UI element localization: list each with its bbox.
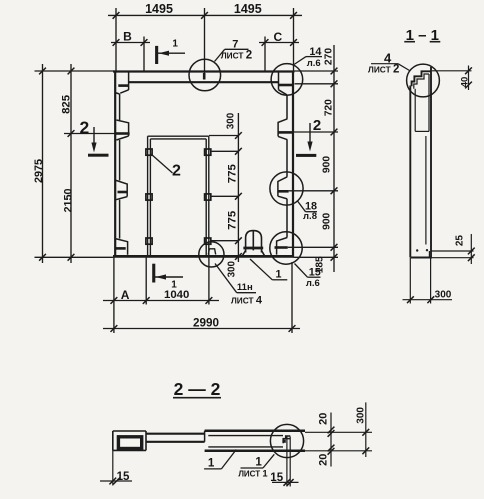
svg-text:л.6: л.6 — [307, 58, 321, 69]
svg-text:4: 4 — [384, 51, 392, 66]
svg-text:2975: 2975 — [33, 159, 45, 183]
svg-text:C: C — [273, 30, 282, 44]
svg-text:270: 270 — [323, 48, 334, 65]
svg-text:1: 1 — [255, 456, 262, 469]
svg-text:300: 300 — [435, 290, 452, 301]
svg-text:ЛИСТ 2: ЛИСТ 2 — [368, 64, 399, 76]
svg-text:15: 15 — [309, 267, 321, 279]
svg-text:20: 20 — [317, 454, 329, 466]
svg-text:775: 775 — [227, 164, 239, 184]
svg-text:1: 1 — [275, 269, 281, 281]
svg-text:900: 900 — [321, 156, 332, 173]
svg-text:25: 25 — [454, 235, 465, 247]
svg-text:1495: 1495 — [234, 2, 262, 16]
svg-text:1495: 1495 — [145, 2, 173, 16]
svg-text:2990: 2990 — [193, 317, 220, 330]
svg-text:825: 825 — [60, 94, 72, 114]
svg-text:900: 900 — [321, 212, 332, 229]
svg-text:ЛИСТ 4: ЛИСТ 4 — [231, 295, 263, 307]
svg-text:11н: 11н — [237, 282, 253, 293]
svg-text:720: 720 — [323, 99, 334, 116]
svg-text:300: 300 — [227, 260, 238, 277]
svg-text:2: 2 — [172, 163, 181, 180]
svg-text:20: 20 — [317, 413, 329, 425]
svg-text:2 — 2: 2 — 2 — [174, 379, 221, 399]
svg-text:1040: 1040 — [164, 289, 189, 301]
svg-text:ЛИСТ 1: ЛИСТ 1 — [238, 468, 268, 479]
svg-text:1: 1 — [172, 39, 178, 50]
svg-text:300: 300 — [226, 112, 237, 129]
svg-text:B: B — [123, 30, 132, 44]
svg-text:15: 15 — [117, 471, 130, 483]
svg-text:ЛИСТ 2: ЛИСТ 2 — [221, 50, 252, 62]
svg-text:14: 14 — [309, 46, 321, 58]
svg-text:2150: 2150 — [63, 188, 75, 212]
svg-text:1: 1 — [171, 280, 177, 291]
svg-text:40: 40 — [459, 77, 470, 88]
svg-text:A: A — [121, 288, 130, 302]
svg-text:7: 7 — [232, 38, 238, 50]
svg-text:300: 300 — [355, 407, 366, 424]
svg-text:л.6: л.6 — [306, 278, 320, 289]
svg-text:2: 2 — [80, 117, 90, 137]
svg-text:2: 2 — [313, 117, 321, 134]
svg-text:775: 775 — [227, 210, 239, 230]
svg-text:15: 15 — [270, 472, 283, 484]
svg-text:1: 1 — [208, 457, 215, 470]
svg-text:л.8: л.8 — [303, 211, 317, 222]
